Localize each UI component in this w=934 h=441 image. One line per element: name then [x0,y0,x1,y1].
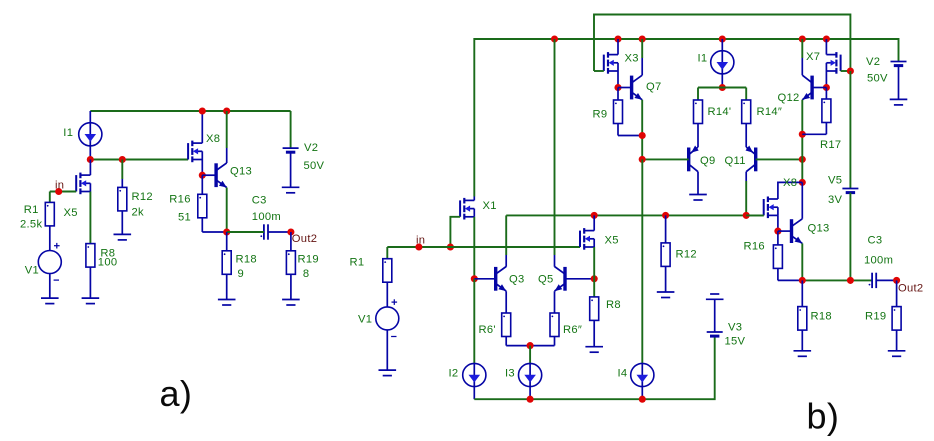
svg-text:Q12: Q12 [778,92,800,104]
junction [799,179,806,186]
junction [527,396,534,403]
label 9 [238,268,245,280]
ground [689,195,707,201]
label X5 b [605,235,619,247]
wire V1-gnd [49,274,51,299]
label I3 [505,368,515,380]
label R12 b [676,249,697,261]
label R17 [820,139,841,151]
label 50V [304,160,325,172]
node in b [415,243,422,250]
svg-text:Q9: Q9 [700,155,716,167]
svg-text:X8: X8 [206,133,220,145]
svg-text:V2: V2 [866,56,880,68]
label C3 [252,195,267,207]
label I1 b [698,53,708,65]
current source I2 [463,363,486,399]
ground [890,99,908,105]
label 2.5k [20,219,42,231]
label a) [160,373,193,414]
label Out2 b [898,283,923,295]
junction [87,156,94,163]
resistor R12 b [661,215,670,292]
battery V5 [842,189,858,193]
wire R8-gnd [89,267,91,298]
label Q11 [725,155,746,167]
junction [614,84,621,91]
junction [591,275,598,282]
label in b [416,235,425,247]
label R8 [100,248,115,260]
svg-text:9: 9 [238,268,245,280]
label V2 [304,142,318,154]
label X3 [625,53,639,65]
mosfet X1 [450,197,474,279]
label R19 [298,254,319,266]
transistor Q13 [202,111,226,232]
svg-text:100m: 100m [252,211,281,223]
current source I1 b [711,39,734,88]
wire X5-R8 b [593,279,595,297]
svg-text:100m: 100m [864,255,893,267]
svg-text:R1: R1 [24,204,39,216]
transistor Q5 [555,267,595,314]
svg-text:R17: R17 [820,139,841,151]
junction [614,35,621,42]
label R18 b [811,311,832,323]
svg-text:51: 51 [178,212,191,224]
ground [888,351,906,357]
node in a [55,188,62,195]
wire out row b [802,279,872,281]
resistor R1 [45,202,54,226]
wire drain rail [506,214,764,216]
resistor R8 b [590,297,599,321]
label R19 b [865,311,886,323]
transistor Q11 [746,146,803,216]
wire Q3 collector [505,215,507,266]
wire R14 split [698,88,746,101]
label 100 [98,257,118,269]
svg-text:I1: I1 [698,53,708,65]
label 2k [132,206,145,218]
label 3V [828,194,843,206]
svg-text:Q13: Q13 [230,166,252,178]
current source I4 [631,363,654,399]
svg-text:R19: R19 [865,311,886,323]
junction [799,277,806,284]
node Out2 a [287,228,294,235]
wire V5 top [849,71,851,189]
wire in net b [387,247,580,259]
svg-text:R18: R18 [236,254,257,266]
label I4 [618,368,628,380]
label C3 b [868,235,883,247]
label Q12 [778,92,800,104]
label Q9 [700,155,716,167]
label R16 b [744,241,765,253]
svg-text:R8: R8 [606,299,621,311]
svg-text:Q13: Q13 [808,223,830,235]
label R8 b [606,299,621,311]
label 100m b [864,255,893,267]
junction [199,172,206,179]
svg-text:V5: V5 [828,175,842,187]
wire gate rail a [90,159,188,161]
label I2 [449,368,459,380]
svg-text:R14″: R14″ [757,106,783,118]
battery V2 b [891,62,907,100]
junction [527,342,534,349]
svg-text:Q7: Q7 [646,81,662,93]
svg-text:I1: I1 [63,127,73,139]
label R12 [132,191,153,203]
svg-text:X8: X8 [783,177,797,189]
junction [743,212,750,219]
svg-text:X1: X1 [483,200,497,212]
svg-text:I2: I2 [449,368,459,380]
svg-text:R16: R16 [169,194,190,206]
svg-text:100: 100 [98,257,118,269]
resistor R14' [694,100,703,124]
label Q3 [509,274,525,286]
svg-text:R6″: R6″ [563,324,582,336]
ground [379,370,397,376]
wire I4 column [641,159,643,363]
svg-text:R1: R1 [350,257,365,269]
mosfet X8 [188,111,202,175]
junction [639,132,646,139]
svg-text:R9: R9 [593,109,608,121]
svg-text:R6': R6' [479,324,496,336]
label 8 [303,268,310,280]
label V3 [728,322,742,334]
resistor R14'' [742,100,751,124]
junction [223,107,230,114]
wire I3 lead [529,346,531,364]
label I1 [63,127,73,139]
label X5 [64,207,78,219]
ground [657,292,675,298]
ground [218,300,236,306]
junction [847,277,854,284]
wire top rail a [90,110,290,112]
battery V3 [707,299,723,336]
resistor R6'' [530,313,559,346]
junction [719,35,726,42]
wire in net a [50,192,76,203]
mosfet X5 b [580,215,594,278]
label 50V b [867,73,888,85]
label 100m [252,211,281,223]
ground flipped [706,294,724,299]
node Out2 b [893,277,900,284]
junction [847,67,854,74]
svg-text:8: 8 [303,268,310,280]
capacitor C3 [227,224,291,239]
svg-text:R18: R18 [811,311,832,323]
wire R1-V1 b [386,282,388,307]
junction [799,35,806,42]
wire I2 column [473,279,475,364]
junction [447,243,454,250]
mosfet X7 [826,39,850,88]
label Q13 b [808,223,830,235]
label R1 [24,204,39,216]
resistor R18 b [798,280,807,350]
transistor Q12 [802,39,826,182]
label V1 [25,265,39,277]
svg-text:2.5k: 2.5k [20,219,42,231]
label V1 b [358,314,372,326]
label V2 b [866,56,880,68]
svg-text:Out2: Out2 [292,233,317,245]
svg-text:Q5: Q5 [538,274,554,286]
current source I3 [519,363,542,399]
label in a [55,180,64,192]
resistor R19 b [892,280,901,350]
label R9 [593,109,608,121]
wire V2 drop a [290,111,292,148]
label X8 [206,133,220,145]
transistor Q3 [474,267,506,314]
wire R12 lead [121,160,123,188]
wire R12-gnd [121,211,123,235]
svg-text:V2: V2 [304,142,318,154]
svg-text:X5: X5 [64,207,78,219]
svg-text:in: in [416,235,425,247]
label R18 [236,254,257,266]
resistor R8 [86,244,95,268]
resistor R16 b [773,231,802,280]
svg-text:R19: R19 [298,254,319,266]
svg-text:b): b) [807,396,840,437]
junction [199,107,206,114]
svg-text:Out2: Out2 [898,283,923,295]
junction [471,275,478,282]
ground [114,234,132,240]
svg-text:in: in [55,180,64,192]
svg-text:Q11: Q11 [725,155,746,167]
junction [639,156,646,163]
label Out2 a [292,233,317,245]
transistor Q13 b [778,182,802,280]
junction [799,131,806,138]
wire rail2 [474,39,898,197]
svg-text:15V: 15V [725,336,746,348]
resistor R19 [286,232,295,300]
ground [82,298,100,304]
junction [799,156,806,163]
svg-text:Q3: Q3 [509,274,525,286]
label X7 [806,51,820,63]
svg-text:V1: V1 [358,314,372,326]
source V1 b [376,299,399,336]
svg-text:X3: X3 [625,53,639,65]
label X1 [483,200,497,212]
transistor Q9 [642,146,699,195]
resistor R9 [614,88,643,136]
capacitor C3 b [869,273,897,288]
transistor Q7 [618,39,642,159]
junction [662,212,669,219]
resistor R16 [198,175,227,232]
wire rail1 [594,15,850,72]
junction [719,84,726,91]
label 51 [178,212,191,224]
junction [591,212,598,219]
resistor R17 [802,88,831,135]
svg-text:C3: C3 [252,195,267,207]
svg-text:I4: I4 [618,368,628,380]
svg-text:I3: I3 [505,368,515,380]
svg-text:V3: V3 [728,322,742,334]
label 15V [725,336,746,348]
resistor R1 b [383,259,392,283]
wire R14''-Q11 [745,124,747,148]
wire R1-V1 [49,226,51,251]
label Q13 [230,166,252,178]
ground [282,187,300,193]
wire V5 bottom [849,193,851,281]
wire R8-gnd b [593,320,595,346]
svg-text:a): a) [160,373,193,414]
resistor R18 [222,232,231,300]
label V5 [828,175,842,187]
junction [774,228,781,235]
wire X5-R8 [89,192,91,244]
svg-text:C3: C3 [868,235,883,247]
source V1 [38,243,61,280]
label R16 [169,194,190,206]
mosfet X3 [594,39,618,88]
junction [223,228,230,235]
svg-text:V1: V1 [25,265,39,277]
junction [823,35,830,42]
ground [41,298,59,304]
svg-text:2k: 2k [132,206,145,218]
svg-text:3V: 3V [828,194,843,206]
current source I1 [79,111,102,160]
wire Q5 collector [554,39,556,267]
svg-text:R12: R12 [676,249,697,261]
svg-text:X7: X7 [806,51,820,63]
svg-text:50V: 50V [867,73,888,85]
ground [282,300,300,306]
resistor R12 [118,187,127,211]
wire bottom rail [474,336,714,399]
junction [823,84,830,91]
resistor R6' [502,313,530,346]
junction [551,35,558,42]
label Q7 [646,81,662,93]
label Q5 [538,274,554,286]
label b) [807,396,840,437]
svg-text:R16: R16 [744,241,765,253]
mosfet X8 b [746,182,802,231]
svg-text:50V: 50V [304,160,325,172]
junction [119,156,126,163]
label X8 b [783,177,797,189]
label R6' [479,324,496,336]
wire R14'-Q9 [697,124,699,148]
svg-text:R12: R12 [132,191,153,203]
label R14' [708,106,732,118]
svg-text:X5: X5 [605,235,619,247]
ground [585,347,603,353]
label R6'' [563,324,582,336]
label R1 b [350,257,365,269]
ground [794,351,812,357]
mosfet X5 [76,160,90,195]
label R14'' [757,106,783,118]
battery V2 a [283,148,299,187]
junction [639,396,646,403]
junction [639,35,646,42]
wire V1-gnd b [386,330,388,370]
svg-text:R14': R14' [708,106,732,118]
